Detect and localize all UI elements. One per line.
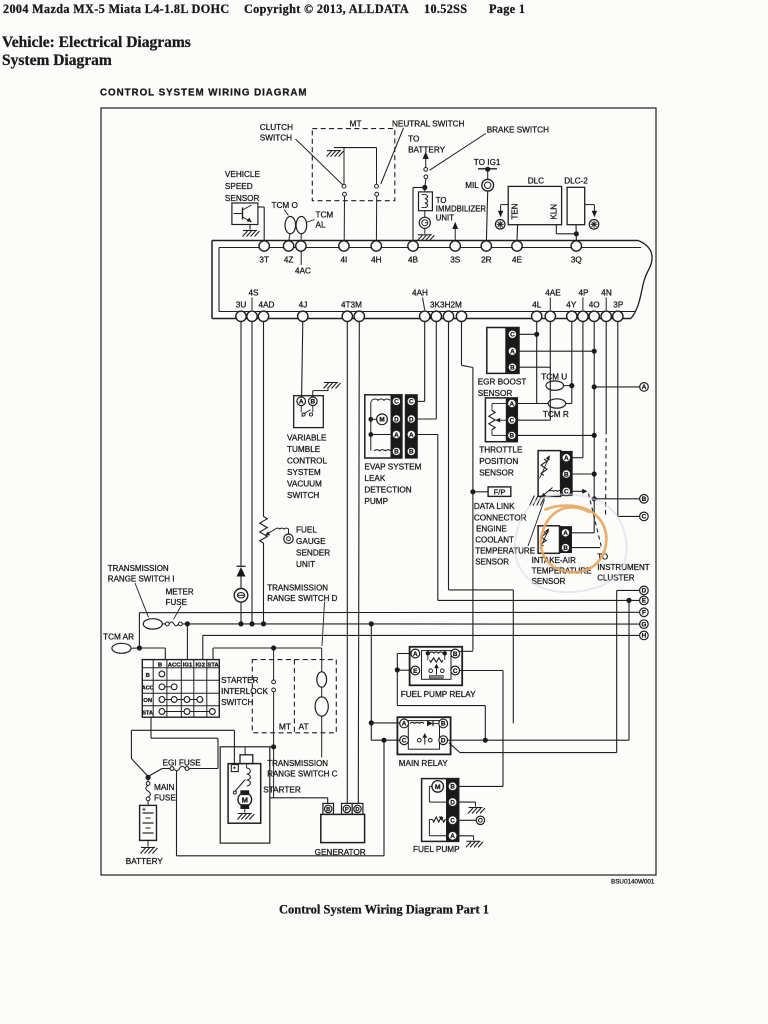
ground under immobilizer <box>417 228 434 240</box>
svg-text:TCM O: TCM O <box>272 201 298 210</box>
svg-text:MT: MT <box>350 118 362 128</box>
label TO INSTRUMENT CLUSTER <box>597 552 650 582</box>
svg-text:Page 1: Page 1 <box>489 2 525 16</box>
svg-text:3Q: 3Q <box>571 256 582 265</box>
TCM U oval connector <box>546 381 574 390</box>
svg-text:NEUTRAL SWITCH: NEUTRAL SWITCH <box>392 119 465 128</box>
svg-text:B: B <box>441 721 446 728</box>
F bus drop to TCM AR junction <box>137 613 141 650</box>
svg-text:CONTROL: CONTROL <box>287 457 327 466</box>
wire IAT B to instrument cluster <box>572 547 601 549</box>
svg-text:RANGE SWITCH I: RANGE SWITCH I <box>108 574 175 583</box>
wire to node D <box>617 590 640 752</box>
svg-text:TCM U: TCM U <box>541 372 567 381</box>
main feed wire to starter <box>131 730 234 776</box>
MT dashed box <box>312 129 395 201</box>
svg-text:STARTER: STARTER <box>263 785 301 794</box>
fuel pump <box>422 779 459 842</box>
svg-text:TO: TO <box>408 134 419 143</box>
svg-text:COOLANT: COOLANT <box>475 535 514 544</box>
faint blue annotation loop <box>515 494 627 592</box>
svg-text:TEMPERATURE: TEMPERATURE <box>475 546 535 555</box>
svg-text:3S: 3S <box>450 256 461 265</box>
wire pin 4AE to TPS C <box>516 322 550 421</box>
svg-text:BSU0140W001: BSU0140W001 <box>611 879 655 886</box>
immobilizer coil box <box>419 188 433 211</box>
svg-text:G: G <box>641 621 646 628</box>
svg-text:A: A <box>402 721 407 728</box>
PCM bottom row pins 3U 4S 4AD 4J 4T 3M 4AH 3K 3H 2M 4L 4AE 4Y 4P 4O 4N 3P <box>236 289 624 322</box>
svg-text:4S: 4S <box>248 289 259 298</box>
svg-text:THROTTLE: THROTTLE <box>479 446 523 455</box>
svg-text:C: C <box>409 399 414 406</box>
svg-text:MIL: MIL <box>465 181 479 190</box>
F/P data link connector box <box>471 487 511 497</box>
starter outer enclosure <box>220 747 273 843</box>
DLC box <box>508 186 561 224</box>
wire G bus to ignition switch IG1 <box>186 624 188 660</box>
node C <box>640 512 649 521</box>
label TRANSMISSION RANGE SWITCH I with leader <box>108 564 175 618</box>
wire EGR B to 4AE line <box>519 366 550 368</box>
wire fuel pump relay B up (2M) <box>460 650 473 652</box>
svg-text:B: B <box>146 673 150 679</box>
TPS potentiometer <box>489 404 508 436</box>
arrow to immobilizer on pin 3S <box>452 222 458 241</box>
page header line <box>3 2 525 16</box>
svg-text:METER: METER <box>166 587 194 596</box>
label TCM O <box>272 201 298 216</box>
main fuse <box>146 777 151 805</box>
immobilizer G symbol <box>419 211 430 229</box>
ECT ground arrow <box>530 488 553 506</box>
svg-text:FUEL PUMP: FUEL PUMP <box>413 845 460 854</box>
label METER FUSE with leader <box>166 587 194 619</box>
svg-text:D: D <box>642 588 647 595</box>
wire pin 4S to G bus <box>250 322 254 626</box>
svg-text:4H: 4H <box>371 256 382 265</box>
svg-text:TEN: TEN <box>511 203 520 219</box>
ECT internal resistor to C <box>550 490 562 493</box>
wire VSS to pin 3T <box>258 207 264 241</box>
H bus wire <box>203 635 640 659</box>
DLC-2 right tap arrow and connector symbol <box>585 205 599 230</box>
EGR boost sensor <box>487 328 519 374</box>
node F <box>640 608 649 617</box>
fuel pump A ground <box>457 836 483 848</box>
svg-text:SENDER: SENDER <box>296 549 330 558</box>
PCM connector bar <box>212 241 652 319</box>
svg-text:ENGINE: ENGINE <box>476 524 507 533</box>
svg-text:SWITCH: SWITCH <box>260 134 292 143</box>
svg-text:E: E <box>413 668 418 675</box>
node D <box>640 586 649 595</box>
label TRANSMISSION RANGE SWITCH D with leader <box>267 583 337 646</box>
svg-text:B: B <box>510 365 515 372</box>
svg-text:VARIABLE: VARIABLE <box>287 434 327 443</box>
label STARTER INTERLOCK SWITCH <box>221 676 268 707</box>
svg-text:BRAKE SWITCH: BRAKE SWITCH <box>487 125 549 134</box>
svg-text:2004 Mazda MX-5 Miata L4-1.8L: 2004 Mazda MX-5 Miata L4-1.8L DOHC <box>3 2 230 16</box>
svg-text:STA: STA <box>142 710 153 716</box>
svg-text:TRANSMISSION: TRANSMISSION <box>267 759 328 768</box>
fuel pump D ground <box>457 802 485 813</box>
label ENGINE COOLANT TEMPERATURE SENSOR with leader <box>475 500 544 567</box>
svg-text:B: B <box>642 496 647 503</box>
label TRANSMISSION RANGE SWITCH C <box>267 759 337 779</box>
svg-text:STARTER: STARTER <box>221 676 259 685</box>
svg-text:B: B <box>450 784 455 791</box>
svg-text:RANGE SWITCH C: RANGE SWITCH C <box>267 770 337 779</box>
svg-text:STA: STA <box>207 662 219 668</box>
svg-text:UNIT: UNIT <box>436 214 454 223</box>
svg-text:DETECTION: DETECTION <box>364 486 411 495</box>
ignition switch B feed wire <box>151 717 218 768</box>
svg-text:C: C <box>509 418 514 425</box>
label CLUTCH SWITCH with leader <box>260 123 343 185</box>
svg-text:4L: 4L <box>532 301 542 310</box>
main relay <box>397 717 450 754</box>
svg-text:E: E <box>642 598 647 605</box>
wire TCM AR to ignition switch B <box>139 648 165 660</box>
svg-text:TRANSMISSION: TRANSMISSION <box>267 583 328 592</box>
svg-text:SPEED: SPEED <box>225 182 253 191</box>
wire EGR A to 4O line <box>519 349 596 353</box>
variable tumble control system vacuum switch <box>294 396 324 428</box>
wire EVAP D to pin 3K <box>417 322 436 419</box>
wire 4AD to G bus <box>261 543 265 626</box>
svg-text:A: A <box>509 401 514 408</box>
clutch switch contacts <box>342 148 346 241</box>
engine coolant temperature sensor <box>538 451 572 497</box>
wire DLC-2 to junction <box>575 225 577 234</box>
svg-text:B: B <box>409 449 414 456</box>
svg-text:A: A <box>450 833 455 840</box>
wire MIL to pin 2R <box>486 191 487 241</box>
svg-text:4N: 4N <box>601 289 612 298</box>
wire DLC TEN to pin 4E <box>516 225 519 241</box>
svg-text:RANGE SWITCH D: RANGE SWITCH D <box>267 594 337 603</box>
inline connector symbol on 3U line <box>234 577 248 603</box>
svg-text:MAIN: MAIN <box>154 783 175 792</box>
svg-text:POSITION: POSITION <box>479 457 518 466</box>
PCM top row pins 3T 4Z 4AC 4I 4H 4B 3S 2R 4E 3Q <box>259 241 582 276</box>
svg-text:4AD: 4AD <box>259 301 275 310</box>
svg-text:DLC-2: DLC-2 <box>564 176 588 185</box>
wire TPS B to 4O line <box>516 433 596 437</box>
svg-text:B: B <box>563 545 568 552</box>
meter fuse <box>162 622 182 626</box>
svg-text:SYSTEM: SYSTEM <box>287 468 321 477</box>
ground in starter <box>238 813 252 815</box>
svg-text:TO IG1: TO IG1 <box>474 158 501 167</box>
wire EVAP C to pin 4AH <box>417 322 425 402</box>
F bus wire <box>139 611 639 613</box>
svg-text:D: D <box>355 807 359 813</box>
AT switch ovals (transmission range switch) <box>315 648 328 758</box>
svg-text:A: A <box>413 651 418 658</box>
fuel pump relay A-E wire and drop to main relay D <box>395 654 487 743</box>
svg-text:4I: 4I <box>340 256 347 265</box>
fuel gauge sender resistor <box>260 517 276 544</box>
wire ECT B to 4O line <box>572 473 594 475</box>
svg-text:IG2: IG2 <box>196 662 206 668</box>
svg-text:3U: 3U <box>236 301 247 310</box>
wire EGR C to 4L line <box>519 332 539 336</box>
svg-text:TCM: TCM <box>316 211 334 220</box>
EGI fuse <box>148 766 218 776</box>
node B <box>640 495 649 504</box>
svg-text:A: A <box>563 530 568 537</box>
svg-text:TCM R: TCM R <box>543 410 569 419</box>
svg-text:INTERLOCK: INTERLOCK <box>221 687 268 696</box>
wire pin 4AD down <box>263 322 265 517</box>
TCM AR oval <box>112 643 139 653</box>
fuel pump C check connector <box>457 816 484 824</box>
svg-text:4O: 4O <box>589 301 600 310</box>
svg-text:10.52SS: 10.52SS <box>424 2 467 16</box>
DLC-2 box <box>567 187 585 224</box>
fuel gauge symbol <box>276 528 294 543</box>
wire pin 4Y to TCM R <box>566 322 572 404</box>
vehicle speed sensor box with transistor <box>232 203 258 225</box>
label TO IMMDBILIZER UNIT <box>436 196 487 223</box>
TCM R oval connector <box>548 399 566 408</box>
wire pin 4T to generator P <box>346 322 348 804</box>
svg-text:SENSOR: SENSOR <box>478 389 513 398</box>
label EVAP SYSTEM LEAK DETECTION PUMP <box>364 463 421 507</box>
svg-text:EGI FUSE: EGI FUSE <box>163 758 202 767</box>
svg-text:Vehicle: Electrical Diagrams: Vehicle: Electrical Diagrams <box>2 34 191 51</box>
wire to node B <box>594 498 639 500</box>
starter inner box <box>228 764 261 824</box>
E bus wire <box>438 598 640 740</box>
svg-text:B: B <box>310 399 315 406</box>
svg-text:2R: 2R <box>481 256 492 265</box>
svg-text:MT: MT <box>279 722 291 732</box>
svg-text:A: A <box>642 384 647 391</box>
svg-text:ACC: ACC <box>142 685 154 691</box>
svg-text:D: D <box>450 799 455 806</box>
svg-text:4AH: 4AH <box>412 289 428 298</box>
svg-text:B: B <box>326 807 330 813</box>
svg-text:C: C <box>450 818 455 825</box>
svg-text:SENSOR: SENSOR <box>475 557 509 566</box>
MT AT dashed box <box>252 660 336 733</box>
label EGR BOOST SENSOR <box>478 378 527 399</box>
diode on 3U line <box>237 566 246 576</box>
G bus wire <box>182 622 639 626</box>
svg-text:3K3H2M: 3K3H2M <box>430 301 462 310</box>
svg-text:IG1: IG1 <box>183 662 193 668</box>
svg-text:FUSE: FUSE <box>154 793 176 802</box>
wire to pin 4B <box>413 188 425 241</box>
svg-text:A: A <box>510 349 515 356</box>
svg-text:FUEL: FUEL <box>296 526 317 535</box>
svg-text:M: M <box>242 795 248 804</box>
svg-text:4T3M: 4T3M <box>341 301 362 310</box>
svg-text:System Diagram: System Diagram <box>2 52 112 69</box>
svg-text:D: D <box>441 738 446 745</box>
generator <box>321 803 365 842</box>
svg-text:4B: 4B <box>408 256 419 265</box>
svg-text:3P: 3P <box>613 301 624 310</box>
svg-text:SENSOR: SENSOR <box>225 194 260 203</box>
IAT thermistor <box>540 528 549 549</box>
wire ECT C arrow to instrument cluster <box>572 489 601 548</box>
svg-text:EGR BOOST: EGR BOOST <box>478 378 527 387</box>
label NEUTRAL SWITCH with leader <box>381 119 465 184</box>
node G <box>640 620 649 629</box>
starter motor <box>238 791 252 813</box>
svg-text:FUEL PUMP RELAY: FUEL PUMP RELAY <box>401 690 476 699</box>
svg-text:DATA LINK: DATA LINK <box>474 502 515 511</box>
ground for vacuum switch <box>313 383 341 398</box>
MIL lamp <box>482 169 494 191</box>
svg-text:F/P: F/P <box>494 487 506 496</box>
wire to node A <box>594 386 639 388</box>
wire pin 3H down to main relay B <box>449 322 514 724</box>
svg-text:4E: 4E <box>512 256 523 265</box>
svg-text:C: C <box>510 332 515 339</box>
wire pin 3U down <box>240 322 242 566</box>
svg-text:B: B <box>394 449 399 456</box>
svg-text:C: C <box>642 514 647 521</box>
svg-text:MAIN RELAY: MAIN RELAY <box>399 759 449 768</box>
IG1 T-bar node <box>478 167 497 171</box>
ECT thermistor <box>540 455 550 478</box>
wire pin 4J to vacuum switch <box>302 322 303 398</box>
svg-text:UNIT: UNIT <box>296 560 315 569</box>
svg-text:D: D <box>409 416 414 423</box>
wire pin 4O sensor ground line <box>572 322 597 533</box>
svg-text:H: H <box>642 633 647 640</box>
label BRAKE SWITCH with leader <box>430 125 550 170</box>
svg-text:4Y: 4Y <box>566 301 577 310</box>
svg-text:A: A <box>394 432 399 439</box>
junction node battery/immobilizer <box>423 185 427 189</box>
wire EVAP A to E bus <box>417 435 438 601</box>
svg-text:GAUGE: GAUGE <box>296 537 326 546</box>
svg-text:B: B <box>564 471 569 478</box>
svg-text:CLUTCH: CLUTCH <box>260 123 293 132</box>
svg-text:EVAP SYSTEM: EVAP SYSTEM <box>364 463 421 472</box>
starter interlock switch grid <box>142 660 220 718</box>
svg-text:Control System Wiring Diagram: Control System Wiring Diagram Part 1 <box>279 903 489 917</box>
DLC left tap arrow and connector symbol <box>495 205 508 230</box>
wire pin 3P to circle C <box>618 322 640 517</box>
vehicle speed sensor <box>225 170 261 203</box>
svg-text:INTAKE-AIR: INTAKE-AIR <box>532 556 577 565</box>
wire pin 4N dashed to instrument cluster <box>605 322 608 518</box>
svg-text:AL: AL <box>316 221 326 230</box>
svg-text:LEAK: LEAK <box>364 474 385 483</box>
label FUEL GAUGE SENDER UNIT <box>296 526 330 570</box>
wire pin 4L to TPS A <box>516 322 548 404</box>
svg-text:4J: 4J <box>299 301 308 310</box>
svg-text:Copyright © 2013, ALLDATA: Copyright © 2013, ALLDATA <box>244 2 409 16</box>
label INTAKE-AIR TEMPERATURE SENSOR <box>532 556 592 586</box>
svg-text:TCM AR: TCM AR <box>103 633 134 642</box>
svg-text:C: C <box>402 738 407 745</box>
battery <box>140 805 157 840</box>
wire main relay C to battery feed loop <box>177 738 387 856</box>
throttle position sensor <box>485 398 517 442</box>
svg-text:VEHICLE: VEHICLE <box>225 170 261 179</box>
svg-text:TRANSMISSION: TRANSMISSION <box>108 564 169 573</box>
svg-text:4Z: 4Z <box>284 256 294 265</box>
svg-text:C: C <box>394 399 399 406</box>
svg-text:AT: AT <box>299 722 309 732</box>
svg-text:P: P <box>345 807 349 813</box>
interlock wire into solenoid <box>240 747 253 764</box>
ground under VSS <box>243 225 260 237</box>
ground under battery <box>141 840 158 853</box>
node E <box>640 596 649 605</box>
svg-text:KLN: KLN <box>549 204 558 220</box>
diagram outer border <box>101 108 656 875</box>
wire MT box internal <box>334 147 377 149</box>
svg-text:A: A <box>409 432 414 439</box>
label VARIABLE TUMBLE CONTROL SYSTEM VACUUM SWITCH <box>287 434 327 501</box>
svg-text:A: A <box>299 399 304 406</box>
svg-text:SWITCH: SWITCH <box>287 491 319 500</box>
svg-text:IMMDBILIZER: IMMDBILIZER <box>436 205 487 214</box>
label THROTTLE POSITION SENSOR <box>479 446 523 478</box>
neutral switch contacts <box>375 148 379 241</box>
svg-text:4P: 4P <box>578 289 589 298</box>
svg-text:CONNECTOR: CONNECTOR <box>474 514 527 523</box>
svg-text:BATTERY: BATTERY <box>408 145 446 154</box>
svg-text:+: + <box>142 808 146 814</box>
svg-text:FUSE: FUSE <box>166 598 187 607</box>
svg-text:BATTERY: BATTERY <box>126 857 164 866</box>
to-battery arrow and brake switch contacts <box>423 152 429 188</box>
label DATA LINK CONNECTOR <box>474 502 527 523</box>
svg-text:D: D <box>394 416 399 423</box>
svg-text:B: B <box>453 651 458 658</box>
node A <box>640 383 649 392</box>
node H <box>640 631 649 640</box>
label TO BATTERY <box>408 134 446 154</box>
svg-text:3T: 3T <box>259 256 269 265</box>
svg-text:TUMBLE: TUMBLE <box>287 445 321 454</box>
wire main relay D to node D branch <box>449 743 617 753</box>
intake-air temperature sensor <box>538 526 571 554</box>
wire pin 3M to generator D <box>358 322 359 804</box>
svg-text:SENSOR: SENSOR <box>479 469 514 478</box>
wire G bus to main relay A and C <box>369 624 400 740</box>
orange annotation circle <box>541 506 606 573</box>
svg-text:B: B <box>509 433 514 440</box>
svg-text:4AC: 4AC <box>295 267 311 276</box>
svg-text:M: M <box>379 417 384 424</box>
transmission range switch I oval <box>143 619 162 629</box>
label MAIN FUSE <box>154 783 176 803</box>
junction battery feed <box>146 775 150 779</box>
svg-text:SWITCH: SWITCH <box>221 698 253 707</box>
svg-text:4AE: 4AE <box>545 289 561 298</box>
TCM O oval connector <box>285 217 296 234</box>
svg-text:M: M <box>435 784 441 791</box>
wire main relay D to node E branch <box>448 739 629 741</box>
wires TCM ovals to pins 4Z 4AC <box>289 234 302 241</box>
label TCM AL <box>306 211 333 230</box>
svg-text:CONTROL SYSTEM WIRING DIAGRAM: CONTROL SYSTEM WIRING DIAGRAM <box>100 88 308 99</box>
wire pin 4P to ECT A <box>572 322 583 458</box>
svg-text:VACUUM: VACUUM <box>287 480 322 489</box>
svg-text:ACC: ACC <box>168 662 182 668</box>
